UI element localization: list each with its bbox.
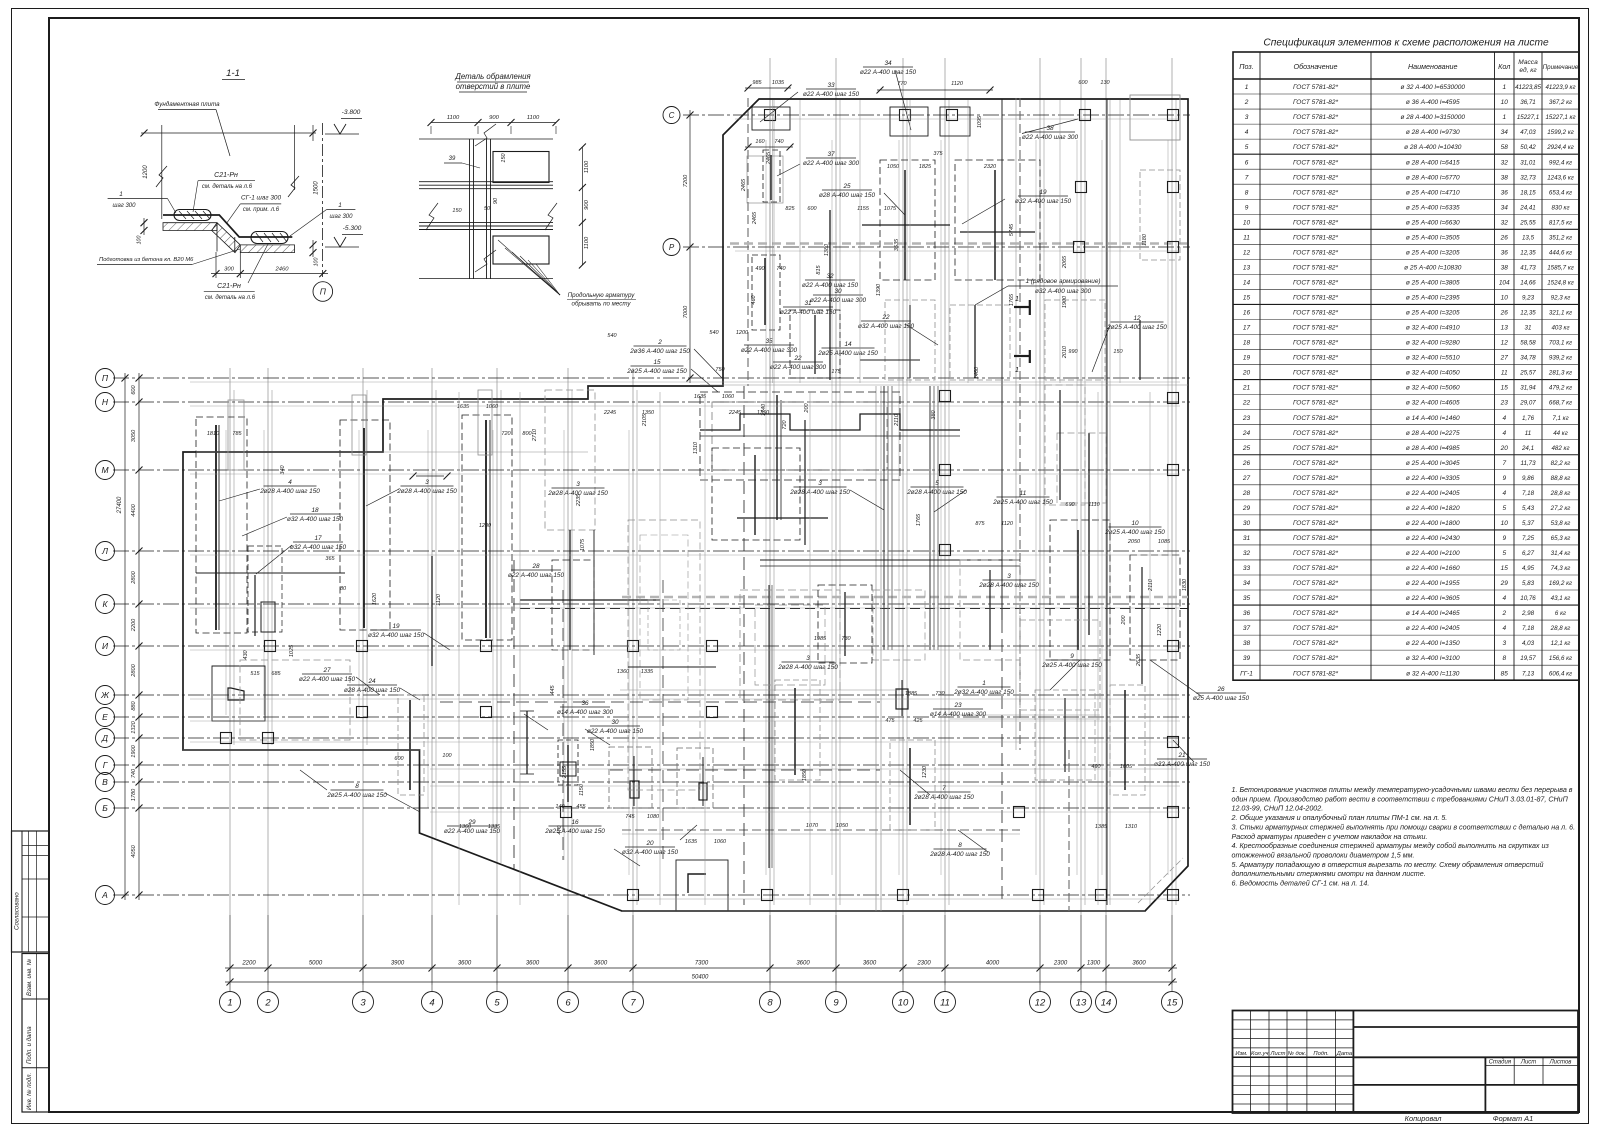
wing top squares	[765, 110, 776, 121]
svg-text:20: 20	[645, 840, 654, 847]
svg-text:5: 5	[935, 480, 939, 487]
central long horizontal bundle	[760, 559, 1020, 561]
central bar 14 vertical	[776, 395, 778, 520]
svg-text:27,2 кг: 27,2 кг	[1550, 505, 1571, 512]
svg-text:44 кг: 44 кг	[1553, 430, 1568, 437]
svg-text:32: 32	[1501, 159, 1509, 166]
detail 1-1 prep hatch band lower	[240, 245, 294, 253]
bottom flag rect	[676, 860, 728, 911]
svg-text:7: 7	[942, 785, 946, 792]
svg-text:690: 690	[1065, 502, 1075, 508]
svg-text:1060: 1060	[722, 394, 735, 400]
svg-text:300: 300	[224, 267, 234, 273]
svg-text:9: 9	[1502, 475, 1506, 482]
svg-text:668,7 кг: 668,7 кг	[1549, 400, 1572, 407]
svg-text:1620: 1620	[372, 592, 378, 605]
svg-text:403 кг: 403 кг	[1551, 325, 1569, 332]
svg-text:2ø25 А-400 шаг 150: 2ø25 А-400 шаг 150	[544, 828, 605, 835]
svg-text:ø 22 А-400 l=2100: ø 22 А-400 l=2100	[1406, 550, 1460, 557]
svg-text:19: 19	[1243, 355, 1251, 362]
svg-text:1740: 1740	[761, 403, 767, 416]
svg-text:367,2 кг: 367,2 кг	[1549, 99, 1572, 106]
svg-text:32,73: 32,73	[1520, 174, 1536, 181]
svg-text:16: 16	[1243, 310, 1251, 317]
pilaster rect pair below B	[609, 747, 652, 808]
svg-text:ø22 А-400 шаг 300: ø22 А-400 шаг 300	[1022, 134, 1079, 141]
svg-text:479,2 кг: 479,2 кг	[1549, 385, 1572, 392]
svg-text:38: 38	[1501, 264, 1509, 271]
svg-text:1120: 1120	[1001, 521, 1014, 527]
svg-text:10: 10	[1501, 99, 1509, 106]
left lower trapezoid block	[212, 666, 265, 721]
svg-text:2ø28 А-400 шаг 150: 2ø28 А-400 шаг 150	[789, 489, 850, 496]
svg-text:3600: 3600	[796, 961, 810, 967]
svg-text:ГОСТ 5781-82*: ГОСТ 5781-82*	[1293, 550, 1338, 557]
svg-text:685: 685	[271, 671, 281, 677]
svg-text:31,94: 31,94	[1520, 385, 1536, 392]
svg-text:365: 365	[325, 556, 335, 562]
svg-text:ГОСТ 5781-82*: ГОСТ 5781-82*	[1293, 114, 1338, 121]
svg-text:Кол: Кол	[1498, 62, 1510, 71]
svg-text:3600: 3600	[526, 961, 540, 967]
svg-text:ГОСТ 5781-82*: ГОСТ 5781-82*	[1293, 99, 1338, 106]
svg-text:Продольную арматуру: Продольную арматуру	[568, 292, 636, 299]
svg-text:41223,85: 41223,85	[1515, 84, 1541, 91]
svg-text:26: 26	[1500, 234, 1509, 241]
svg-text:30: 30	[834, 288, 842, 295]
svg-text:1070: 1070	[806, 823, 819, 829]
svg-text:3: 3	[360, 997, 366, 1008]
svg-text:ГОСТ 5781-82*: ГОСТ 5781-82*	[1293, 84, 1338, 91]
svg-text:15: 15	[1501, 565, 1509, 572]
svg-text:ø14 А-400 шаг 300: ø14 А-400 шаг 300	[557, 709, 614, 716]
svg-text:С21-Рн: С21-Рн	[217, 283, 241, 290]
axis11 squares	[940, 391, 951, 402]
svg-text:ø 22 А-400 l=2430: ø 22 А-400 l=2430	[1406, 535, 1460, 542]
svg-text:1460: 1460	[974, 366, 980, 379]
svg-text:1100: 1100	[584, 160, 590, 173]
svg-text:12.03-99, СНиП 12.04-2002.: 12.03-99, СНиП 12.04-2002.	[1232, 805, 1324, 813]
svg-text:4: 4	[288, 479, 292, 486]
svg-text:ø 22 А-400 l=2405: ø 22 А-400 l=2405	[1406, 490, 1460, 497]
svg-text:2110: 2110	[894, 413, 900, 427]
wing horizontal formwork lines	[735, 118, 1180, 120]
axis8 dark bar	[768, 585, 770, 868]
svg-text:9: 9	[1502, 535, 1506, 542]
central cluster rects 2	[740, 590, 840, 700]
svg-text:7: 7	[1502, 460, 1506, 467]
joint double vertical x877	[875, 386, 877, 911]
svg-text:11: 11	[940, 997, 950, 1008]
svg-text:ø 32 А-400 l=5060: ø 32 А-400 l=5060	[1406, 385, 1460, 392]
svg-text:ø22 А-400 шаг 300: ø22 А-400 шаг 300	[803, 160, 860, 167]
svg-text:11: 11	[1243, 234, 1250, 241]
svg-text:П: П	[102, 373, 109, 383]
svg-text:1335: 1335	[488, 824, 501, 830]
svg-text:Изм.: Изм.	[1235, 1051, 1247, 1057]
svg-text:18: 18	[311, 507, 319, 514]
svg-text:27: 27	[1500, 355, 1509, 362]
svg-text:1100: 1100	[447, 115, 460, 121]
svg-text:28: 28	[531, 563, 540, 570]
svg-text:5,43: 5,43	[1522, 505, 1535, 512]
svg-text:10: 10	[1131, 520, 1139, 527]
svg-text:7000: 7000	[683, 305, 689, 318]
svg-text:29: 29	[1500, 580, 1509, 587]
svg-text:24: 24	[1242, 430, 1251, 437]
hole detail horizontal rebar bundle upper	[419, 181, 553, 183]
svg-text:1: 1	[227, 997, 232, 1008]
column bars lower left	[409, 700, 411, 790]
svg-text:Примечание: Примечание	[1543, 64, 1579, 71]
svg-text:1110: 1110	[1088, 502, 1100, 508]
svg-text:-3.800: -3.800	[342, 109, 361, 116]
svg-text:880: 880	[131, 700, 137, 710]
svg-text:85: 85	[1501, 670, 1509, 677]
svg-text:11: 11	[1525, 430, 1531, 437]
svg-text:740: 740	[774, 139, 784, 145]
svg-text:см. прим. л.6: см. прим. л.6	[243, 207, 280, 213]
svg-text:ø 32 А-400 l=9280: ø 32 А-400 l=9280	[1406, 340, 1460, 347]
svg-text:ГОСТ 5781-82*: ГОСТ 5781-82*	[1293, 355, 1338, 362]
svg-text:шаг 300: шаг 300	[113, 203, 137, 209]
svg-text:1300: 1300	[1087, 961, 1101, 967]
right mid dashed rects	[1050, 520, 1110, 660]
small squares row Zh	[481, 707, 492, 718]
svg-text:ø22 А-400 шаг 300: ø22 А-400 шаг 300	[741, 347, 798, 354]
svg-text:Обозначение: Обозначение	[1293, 62, 1337, 71]
svg-text:ø 32 А-400 l=1130: ø 32 А-400 l=1130	[1406, 670, 1460, 677]
central stepped bar path	[700, 414, 960, 430]
detail 1-1 vdim 100 left	[143, 218, 145, 235]
svg-text:Поз.: Поз.	[1239, 62, 1253, 71]
svg-text:939,2 кг: 939,2 кг	[1549, 355, 1572, 362]
svg-text:ø 28 А-400 l=6415: ø 28 А-400 l=6415	[1406, 159, 1460, 166]
svg-text:ГОСТ 5781-82*: ГОСТ 5781-82*	[1293, 655, 1338, 662]
lower right bar cluster	[1124, 690, 1126, 790]
svg-text:ø32 А-400 шаг 150: ø32 А-400 шаг 150	[1154, 761, 1211, 768]
svg-text:1230: 1230	[922, 765, 928, 778]
svg-text:1390: 1390	[876, 283, 882, 296]
svg-text:15: 15	[1167, 997, 1178, 1008]
svg-text:2ø25 А-400 шаг 150: 2ø25 А-400 шаг 150	[1106, 324, 1167, 331]
svg-text:58,58: 58,58	[1520, 340, 1536, 347]
svg-text:74,3 кг: 74,3 кг	[1551, 565, 1571, 572]
svg-text:770: 770	[897, 81, 907, 87]
central bar 805	[804, 420, 806, 545]
hole detail vertical rebar bundle	[469, 139, 471, 279]
svg-text:3: 3	[806, 655, 810, 662]
svg-text:2105: 2105	[642, 413, 648, 427]
svg-text:36: 36	[581, 700, 589, 707]
svg-text:8: 8	[1245, 189, 1249, 196]
detail 1-1 slab profile	[163, 215, 292, 237]
svg-text:Расход арматуры приведен с: Расход арматуры приведен с учетом наклад…	[1232, 833, 1428, 841]
svg-text:7300: 7300	[695, 961, 709, 967]
svg-text:ø 25 А-400 l=3205: ø 25 А-400 l=3205	[1406, 249, 1460, 256]
svg-text:ø 14 А-400 l=1460: ø 14 А-400 l=1460	[1406, 415, 1460, 422]
hole detail leader fan to label	[498, 240, 560, 295]
svg-text:3: 3	[818, 480, 822, 487]
svg-text:1: 1	[1502, 84, 1506, 91]
svg-text:375: 375	[933, 151, 943, 157]
zone D bars cross	[569, 530, 571, 650]
svg-text:11,73: 11,73	[1520, 460, 1536, 467]
svg-text:ø 22 А-400 l=3605: ø 22 А-400 l=3605	[1406, 595, 1460, 602]
lower middle cluster 1	[775, 680, 820, 780]
svg-text:Подготовка из бетона кл. В20 М: Подготовка из бетона кл. В20 М6	[99, 257, 194, 263]
svg-text:653,4 кг: 653,4 кг	[1549, 189, 1572, 196]
svg-text:ø 25 А-400 l=6630: ø 25 А-400 l=6630	[1406, 219, 1460, 226]
svg-text:ГОСТ 5781-82*: ГОСТ 5781-82*	[1293, 144, 1338, 151]
svg-text:750: 750	[715, 367, 725, 373]
wing column rects top	[752, 107, 790, 130]
hidden step dashed lines black	[513, 560, 515, 870]
svg-text:2ø28 А-400 шаг 150: 2ø28 А-400 шаг 150	[259, 488, 320, 495]
svg-text:ø 32 А-400 l=4605: ø 32 А-400 l=4605	[1406, 400, 1460, 407]
central extra horizontals	[628, 666, 716, 668]
svg-text:Д: Д	[101, 733, 108, 743]
svg-text:150: 150	[501, 152, 507, 162]
zone C small rect	[478, 390, 492, 455]
svg-text:150: 150	[452, 208, 462, 214]
svg-text:2300: 2300	[916, 961, 931, 967]
small squares row A	[628, 890, 639, 901]
svg-text:12: 12	[1133, 315, 1141, 322]
svg-text:321,1 кг: 321,1 кг	[1549, 310, 1572, 317]
svg-text:ø 32 А-400 l=3100: ø 32 А-400 l=3100	[1406, 655, 1460, 662]
svg-text:13: 13	[1076, 997, 1087, 1008]
svg-text:444,6 кг: 444,6 кг	[1549, 249, 1572, 256]
svg-text:41223,9 кг: 41223,9 кг	[1545, 84, 1575, 91]
svg-text:2050: 2050	[1127, 539, 1141, 545]
svg-text:600: 600	[1078, 80, 1088, 86]
detail 1-1 axis P dashdot	[322, 123, 324, 277]
svg-text:21: 21	[1177, 752, 1186, 759]
construction joint vertical x1020	[1019, 98, 1021, 750]
svg-text:1120: 1120	[436, 593, 442, 606]
svg-text:ø32 А-400 шаг 150: ø32 А-400 шаг 150	[287, 516, 344, 523]
svg-text:4050: 4050	[131, 844, 137, 857]
svg-text:Л: Л	[101, 546, 108, 556]
svg-text:8: 8	[1502, 655, 1506, 662]
svg-text:ø28 А-400 шаг 150: ø28 А-400 шаг 150	[819, 192, 876, 199]
hole detail horizontal rebar bundle lower	[419, 221, 553, 223]
svg-text:ГОСТ 5781-82*: ГОСТ 5781-82*	[1293, 415, 1338, 422]
svg-text:19: 19	[392, 623, 400, 630]
svg-text:1599,2 кг: 1599,2 кг	[1547, 129, 1574, 136]
svg-text:13: 13	[1243, 264, 1251, 271]
svg-text:ГОСТ 5781-82*: ГОСТ 5781-82*	[1293, 189, 1338, 196]
svg-text:5745: 5745	[1009, 223, 1015, 236]
svg-text:ø22 А-400 шаг 150: ø22 А-400 шаг 150	[587, 728, 644, 735]
svg-text:281,3 кг: 281,3 кг	[1548, 370, 1572, 377]
svg-text:2ø36 А-400 шаг 150: 2ø36 А-400 шаг 150	[629, 348, 690, 355]
svg-text:ø22 А-400 шаг 150: ø22 А-400 шаг 150	[802, 282, 859, 289]
svg-text:4: 4	[1502, 430, 1506, 437]
svg-text:31: 31	[804, 300, 812, 307]
svg-text:22: 22	[1242, 400, 1251, 407]
svg-text:34: 34	[1501, 129, 1509, 136]
svg-text:540: 540	[709, 330, 719, 336]
svg-text:1-1: 1-1	[226, 68, 240, 79]
rebar bar C	[485, 420, 487, 638]
svg-text:ГОСТ 5781-82*: ГОСТ 5781-82*	[1293, 159, 1338, 166]
svg-text:31: 31	[1243, 535, 1251, 542]
svg-text:1 (рядовое армирование): 1 (рядовое армирование)	[1025, 277, 1100, 285]
central vertical bundle	[883, 386, 885, 650]
svg-text:4000: 4000	[986, 961, 1000, 967]
svg-text:2ø25 А-400 шаг 150: 2ø25 А-400 шаг 150	[626, 368, 687, 375]
svg-text:156,6 кг: 156,6 кг	[1549, 655, 1572, 662]
svg-text:Фундаментная плита: Фундаментная плита	[154, 101, 220, 108]
svg-text:18,15: 18,15	[1520, 189, 1536, 196]
svg-text:35: 35	[765, 338, 773, 345]
svg-text:ø 22 А-400 l=1660: ø 22 А-400 l=1660	[1406, 565, 1460, 572]
svg-text:Лист: Лист	[1270, 1051, 1286, 1057]
svg-text:Наименование: Наименование	[1408, 62, 1458, 71]
svg-text:ø 25 А-400 l=4710: ø 25 А-400 l=4710	[1406, 189, 1460, 196]
svg-text:25: 25	[842, 183, 851, 190]
svg-text:32: 32	[1501, 219, 1509, 226]
svg-text:1120: 1120	[951, 81, 964, 87]
svg-text:ГОСТ 5781-82*: ГОСТ 5781-82*	[1293, 325, 1338, 332]
wing small squares mid	[1168, 182, 1179, 193]
svg-text:15227,1: 15227,1	[1517, 114, 1539, 121]
svg-text:2465: 2465	[766, 151, 772, 165]
svg-text:720: 720	[782, 419, 788, 429]
axis letter bubbles	[96, 369, 115, 388]
svg-text:ø 25 А-400 l=3505: ø 25 А-400 l=3505	[1406, 234, 1460, 241]
hole detail break marks	[426, 203, 438, 230]
svg-text:482 кг: 482 кг	[1551, 445, 1569, 452]
svg-text:В: В	[102, 777, 108, 787]
svg-text:1850: 1850	[590, 738, 596, 751]
svg-text:ø32 А-400 шаг 150: ø32 А-400 шаг 150	[1015, 198, 1072, 205]
left lower dashed region	[240, 660, 350, 740]
svg-text:5: 5	[1245, 144, 1249, 151]
svg-text:Инв. № подл.: Инв. № подл.	[26, 1073, 33, 1110]
svg-text:830 кг: 830 кг	[1551, 204, 1569, 211]
zone D dashed rect axis6	[545, 390, 595, 530]
svg-text:2: 2	[264, 997, 271, 1008]
svg-text:1095: 1095	[977, 115, 983, 128]
wing bottom extra rects	[790, 310, 840, 378]
svg-text:7,18: 7,18	[1522, 490, 1535, 497]
svg-text:Согласовано: Согласовано	[14, 892, 21, 930]
wing center bars T	[904, 170, 906, 280]
svg-text:7200: 7200	[683, 174, 689, 187]
svg-text:ГОСТ 5781-82*: ГОСТ 5781-82*	[1293, 234, 1338, 241]
svg-text:200: 200	[804, 402, 810, 413]
svg-text:8: 8	[958, 842, 962, 849]
svg-text:900: 900	[489, 115, 499, 121]
svg-text:730: 730	[841, 636, 851, 642]
svg-text:4: 4	[1502, 625, 1506, 632]
svg-text:2ø25 А-400 шаг 150: 2ø25 А-400 шаг 150	[992, 499, 1053, 506]
svg-text:1360: 1360	[459, 824, 472, 830]
svg-text:15: 15	[1501, 385, 1509, 392]
svg-text:740: 740	[131, 768, 137, 778]
construction joint horizontal y830	[622, 829, 1020, 831]
detail 1-1 step edge verticals	[216, 223, 218, 252]
svg-text:1360: 1360	[617, 669, 630, 675]
svg-text:ГОСТ 5781-82*: ГОСТ 5781-82*	[1293, 249, 1338, 256]
svg-text:1075: 1075	[884, 206, 897, 212]
svg-text:ед, кг: ед, кг	[1519, 66, 1537, 74]
detail 1-1 break mark on left extension	[156, 166, 167, 187]
svg-text:10: 10	[1501, 520, 1509, 527]
svg-text:ø32 А-400 шаг 150: ø32 А-400 шаг 150	[290, 544, 347, 551]
svg-text:9: 9	[833, 997, 839, 1008]
wing lower cluster rects	[885, 300, 935, 380]
svg-text:№ док.: № док.	[1288, 1051, 1307, 1057]
svg-text:ГОСТ 5781-82*: ГОСТ 5781-82*	[1293, 520, 1338, 527]
svg-text:Копировал: Копировал	[1405, 1114, 1443, 1123]
svg-text:12: 12	[1243, 249, 1251, 256]
svg-text:Лист: Лист	[1520, 1060, 1536, 1066]
svg-text:ø22 А-400 шаг 150: ø22 А-400 шаг 150	[780, 309, 837, 316]
svg-text:ø14 А-400 шаг 300: ø14 А-400 шаг 300	[930, 711, 987, 718]
detail 1-1 rebar oval C21 upper	[174, 210, 211, 221]
svg-text:П: П	[320, 287, 327, 297]
svg-text:430: 430	[243, 649, 249, 659]
svg-text:140: 140	[555, 804, 565, 810]
svg-text:17: 17	[314, 535, 322, 542]
svg-text:7,1 кг: 7,1 кг	[1552, 415, 1568, 422]
svg-text:7: 7	[1245, 174, 1249, 181]
svg-text:28,8 кг: 28,8 кг	[1550, 625, 1571, 632]
svg-text:37: 37	[827, 151, 835, 158]
detail 1-1 top dimension line	[141, 132, 316, 134]
svg-text:8: 8	[767, 997, 773, 1008]
svg-text:14: 14	[1243, 279, 1251, 286]
svg-text:1200: 1200	[479, 523, 492, 529]
svg-text:2ø28 А-400 шаг 150: 2ø28 А-400 шаг 150	[978, 582, 1039, 589]
svg-text:1500: 1500	[314, 181, 320, 195]
svg-text:50400: 50400	[692, 975, 709, 981]
wing left dashed rect	[747, 156, 783, 203]
svg-text:22: 22	[881, 314, 890, 321]
svg-text:ГОСТ 5781-82*: ГОСТ 5781-82*	[1293, 640, 1338, 647]
svg-text:1524,8 кг: 1524,8 кг	[1547, 279, 1574, 286]
svg-text:3: 3	[1007, 573, 1011, 580]
wing left lower dashed rect	[752, 255, 780, 330]
svg-text:2ø28 А-400 шаг 150: 2ø28 А-400 шаг 150	[906, 489, 967, 496]
svg-text:ГОСТ 5781-82*: ГОСТ 5781-82*	[1293, 475, 1338, 482]
svg-text:2010: 2010	[1062, 345, 1068, 359]
svg-text:9: 9	[1245, 204, 1249, 211]
svg-text:2924,4 кг: 2924,4 кг	[1546, 144, 1574, 151]
hole detail opening rect upper	[493, 152, 549, 183]
svg-text:65,3 кг: 65,3 кг	[1551, 535, 1571, 542]
svg-text:5,83: 5,83	[1522, 580, 1535, 587]
svg-text:2ø25 А-400 шаг 150: 2ø25 А-400 шаг 150	[1104, 529, 1165, 536]
svg-text:ГОСТ 5781-82*: ГОСТ 5781-82*	[1293, 129, 1338, 136]
svg-text:1243,6 кг: 1243,6 кг	[1547, 174, 1574, 181]
svg-text:33: 33	[827, 82, 835, 89]
svg-text:ø22 А-400 шаг 300: ø22 А-400 шаг 300	[810, 297, 867, 304]
svg-text:ø 25 А-400 l=2395: ø 25 А-400 l=2395	[1406, 295, 1460, 302]
svg-text:38: 38	[1243, 640, 1251, 647]
svg-text:4: 4	[1502, 595, 1506, 602]
svg-text:ø 25 А-400 l=3045: ø 25 А-400 l=3045	[1406, 460, 1460, 467]
svg-text:175: 175	[831, 369, 841, 375]
svg-text:2245: 2245	[603, 410, 617, 416]
svg-text:1155: 1155	[857, 206, 870, 212]
svg-text:1310: 1310	[693, 441, 699, 454]
svg-text:5,37: 5,37	[1522, 520, 1535, 527]
